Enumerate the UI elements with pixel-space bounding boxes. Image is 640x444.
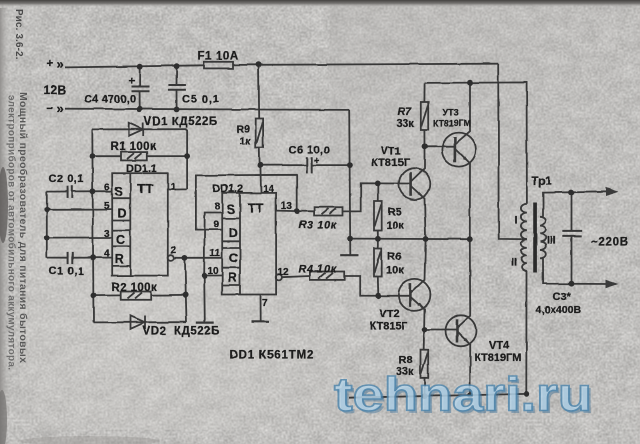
svg-text:R8: R8 [399,354,413,366]
label C6 [289,145,331,168]
wire R9 to C6 left [260,164,307,166]
wire minus rail [65,109,349,110]
transformer Tp1 winding I [521,204,527,239]
label VD2 [143,326,220,338]
resistor R1 [93,152,188,160]
label C3 [553,291,572,303]
transistor VT4 [425,239,477,395]
node pin5 / C-rail [44,207,50,213]
diode VD2 [131,316,146,330]
svg-text:DD1 К561ТМ2: DD1 К561ТМ2 [230,350,315,362]
node C4 bottom on minus rail [137,106,143,112]
node R5-R6 midpoint [375,236,381,242]
node VT4 base on VT2 emitter line [422,327,428,333]
svg-text:12В: 12В [44,83,67,97]
label C5 [182,94,220,106]
svg-text:III: III [547,235,556,247]
wire pin14 [259,165,262,193]
ground bar pin7 [252,320,270,322]
node R6 bottom / VT2 base [375,293,381,299]
label DD1.1 [126,163,157,175]
svg-text:Мощный преобразователь для пит: Мощный преобразователь для питания бытов… [17,92,29,363]
node pin8-pin10 tie [201,273,207,279]
svg-text:13: 13 [281,201,293,212]
label C3 value [536,304,582,316]
svg-text:C2 0,1: C2 0,1 [49,173,85,185]
wire rail B collectors [425,82,527,203]
resistor R7 [421,83,428,146]
svg-text:R6: R6 [388,250,402,262]
svg-text:VD2 КД522Б: VD2 КД522Б [143,326,220,338]
wire center tap [498,64,522,239]
svg-text:R7: R7 [398,106,413,118]
svg-text:S: S [115,185,123,199]
svg-text:VD1 КД522Б: VD1 КД522Б [144,116,218,128]
label R4 italic [299,264,337,276]
svg-text:C: C [116,233,125,247]
resistor R8 [421,350,429,396]
label VT4 [474,340,521,365]
label plus C4 [129,76,135,88]
svg-text:R3 10к: R3 10к [299,219,337,231]
svg-text:6: 6 [104,182,110,193]
node pin3 / C-rail [44,235,50,241]
wire right rail lower (pin2/R2/VD2) [185,258,187,322]
DD1.2 flip-flop box [222,193,276,295]
svg-text:+: + [47,59,54,71]
ground bar pins 8-10 [196,322,214,324]
svg-text:C1 0,1: C1 0,1 [49,266,85,278]
wire pin9 feedback from pin13 [196,175,297,230]
svg-text:R1 100к: R1 100к [111,141,157,153]
svg-text:R5: R5 [388,206,402,218]
wire VD2 bottom [94,321,187,323]
label 220V [591,237,629,249]
svg-text:1к: 1к [240,135,252,147]
label DD1 type [230,350,315,362]
wire pin1 out [168,188,187,190]
label R1 [111,141,157,153]
wire winding II bottom drop [525,271,527,394]
svg-text:I: I [515,215,518,227]
wire pin10 row [204,276,222,323]
DD1.2 S D C R [227,203,238,286]
resistor R9 [256,65,263,166]
svg-text:10к: 10к [386,220,404,232]
svg-text:R9: R9 [237,124,251,136]
arrow output top [606,187,619,196]
node VT3 emitter / VT4 collector [467,236,473,242]
label winding I [515,215,518,227]
svg-text:КТ819ГМ: КТ819ГМ [433,119,471,129]
node C5 bottom on minus rail [174,107,180,113]
node C5 top on +12V rail [174,63,180,69]
node VT4 emitter on bottom rail [467,392,473,398]
svg-text:электроприборов от автомобильн: электроприборов от автомобильного аккуму… [6,95,18,370]
label R9 [237,124,252,148]
transformer Tp1 winding II [521,239,527,271]
wire VD1 top [92,128,187,130]
svg-text:КТ815Г: КТ815Г [370,321,409,333]
node VT3 collector on rail B [467,80,473,86]
label VT1 [372,146,411,170]
wire R3 to VT1 base [343,183,411,211]
capacitor C2 [68,186,73,198]
watermark tehnari.ru [334,368,595,424]
label 12V [44,83,67,97]
label VT2 [370,308,409,333]
svg-text:3: 3 [104,229,110,240]
label DD1.2 [213,183,244,195]
svg-text:R: R [115,252,124,266]
svg-text:5: 5 [104,201,110,212]
label F1 [198,50,239,62]
svg-text:II: II [511,257,517,269]
capacitor C6 [307,157,350,173]
svg-text:R2 100к: R2 100к [112,282,158,294]
margin caption Ris 3.6-2 [6,9,30,370]
label C1 [49,266,85,278]
svg-text:R: R [228,271,237,285]
DD1.2 pin numbers [208,184,293,309]
svg-text:VT2: VT2 [380,308,400,320]
wire right rail upper (pin1/R1/VD1) [186,129,188,189]
wire pin7 [260,295,262,321]
svg-text:33к: 33к [397,118,415,130]
svg-text:TT: TT [137,181,153,196]
resistor R5 [374,183,382,238]
svg-text:Рис. 3.6-2.: Рис. 3.6-2. [13,9,24,60]
label R8 [396,354,414,378]
node R5 top / VT1 base [375,181,381,187]
svg-text:»: » [57,56,64,71]
node C3 top [569,190,575,196]
wire bottom rail [349,394,526,398]
wire pin8 tie [204,213,222,276]
label TT DD1.1 [137,181,153,196]
label R6 [386,250,404,276]
DD1.1 pin numbers [104,182,177,260]
svg-text:4: 4 [104,249,110,260]
transistor VT1 [399,146,430,239]
svg-text:C: C [229,252,238,266]
svg-text:10к: 10к [386,264,404,276]
transistor VT3 [425,83,476,240]
label R5 [386,206,404,232]
svg-text:C5 0,1: C5 0,1 [182,94,220,106]
svg-text:9: 9 [214,220,220,231]
node C3 bottom [569,281,575,287]
arrow output bottom [606,280,619,289]
node winding II bottom on bottom rail [523,391,529,397]
label R7 italic [397,106,415,130]
resistor R6 [374,239,382,296]
node R8 bottom on bottom rail [422,393,428,399]
wire pin3 row [47,237,112,239]
wire C2/C1 left rail [46,192,48,258]
wire mid rail [350,238,470,241]
label VD1 [144,116,218,128]
label winding II [511,257,517,269]
wire pin12 out [276,274,310,280]
diode VD1 [129,123,144,137]
resistor R4 [310,272,344,280]
capacitor C4 [132,67,150,110]
svg-text:D: D [118,207,127,221]
capacitor C1 [68,252,73,264]
DD1.1 flip-flop box [112,173,168,275]
wire R4 to VT2 base [344,276,410,296]
label VT3 [433,108,471,129]
transformer winding III [540,217,546,258]
svg-text:Тр1: Тр1 [532,176,553,188]
node R9-C6-pin14 [258,162,264,168]
svg-text:»: » [57,101,64,116]
svg-text:14: 14 [263,184,275,195]
node R2 right [183,292,189,298]
svg-text:11: 11 [210,248,221,259]
svg-text:R4 10к: R4 10к [299,264,337,276]
node R7-VT1 collector-VT3 base [422,143,428,149]
node R1 left [90,153,96,159]
svg-text:+: + [314,156,320,167]
wire pin6 row with C2 [47,190,112,192]
svg-text:D: D [229,226,238,240]
svg-text:S: S [227,203,235,217]
node R9 top on +12V rail [256,62,262,68]
svg-text:VT1: VT1 [381,146,401,158]
node C6 right on minus drop [347,162,353,168]
label R3 italic [299,219,337,231]
wire +12V top rail [65,64,498,68]
wire pin2 out [168,255,223,261]
wire pin5 row [47,209,112,211]
wire VD1 row left rail [92,129,93,322]
svg-text:+: + [129,76,135,88]
svg-text:F1 10A: F1 10A [198,50,239,62]
capacitor C5 [168,66,186,109]
svg-text:С3*: С3* [553,291,572,303]
node minus input [47,101,64,116]
svg-text:VT4: VT4 [489,340,510,352]
fuse F1 [204,62,233,69]
capacitor C3 [563,192,582,283]
svg-text:10: 10 [208,266,220,277]
svg-text:C6 10,0: C6 10,0 [289,145,331,157]
resistor R2 [93,292,185,300]
svg-text:–: – [47,103,54,115]
DD1.1 S D C R [115,185,127,266]
transformer core [533,203,537,273]
wire minus drop to C6 level and mid [349,110,350,255]
svg-text:КТ819ГМ: КТ819ГМ [474,352,521,364]
node C4 top on +12V rail [137,64,143,70]
label winding III [547,235,556,247]
svg-text:12: 12 [278,267,290,278]
label C4 [85,94,137,106]
svg-text:DD1.1: DD1.1 [126,163,157,175]
label C2 [49,173,85,185]
svg-text:C4 4700,0: C4 4700,0 [85,94,137,106]
label R2 [112,282,158,294]
wire pin13 out [276,210,297,213]
svg-text:КТ815Г: КТ815Г [372,157,411,169]
node pin13-R3-feedback [294,208,300,214]
svg-text:1: 1 [170,182,176,193]
label Tp1 [532,176,553,188]
wire secondary top output [543,192,611,217]
ground bar minus end [340,254,358,256]
node minus drop / mid rail [347,236,353,242]
node pin6 / left rail [90,188,96,194]
svg-text:УТ3: УТ3 [443,108,459,118]
node R1 right [184,153,190,159]
svg-text:DD1.2: DD1.2 [213,183,244,195]
svg-text:8: 8 [214,201,220,212]
svg-text:~220В: ~220В [591,237,629,249]
node R2 left [91,293,97,299]
svg-text:TT: TT [248,201,264,216]
svg-text:2: 2 [171,245,177,256]
svg-text:4,0х400В: 4,0х400В [536,304,582,316]
resistor R3 [297,207,343,215]
wire pin4 row with C1 [47,257,112,259]
svg-text:tehnari.ru: tehnari.ru [334,368,592,421]
svg-text:7: 7 [262,298,268,309]
node pin4 / left rail [90,255,96,261]
label TT DD1.2 [248,201,264,216]
wire secondary bottom output [543,258,611,284]
node VT1 emitter / VT2 collector [423,236,429,242]
transistor VT2 [398,239,430,350]
node plus input [47,56,64,71]
node pin2-pin11 [182,255,188,261]
